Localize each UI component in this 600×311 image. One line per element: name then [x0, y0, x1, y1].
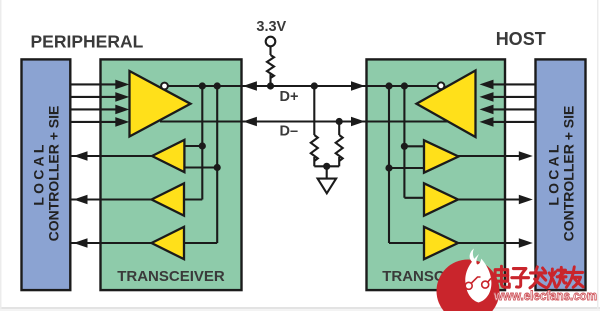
svg-text:CONTROLLER + SIE: CONTROLLER + SIE — [45, 106, 61, 242]
svg-text:CONTROLLER + SIE: CONTROLLER + SIE — [560, 106, 576, 242]
svg-text:TRANSCEIVER: TRANSCEIVER — [117, 268, 225, 285]
svg-text:3.3V: 3.3V — [256, 19, 286, 35]
svg-text:LOCAL: LOCAL — [545, 141, 561, 205]
svg-text:HOST: HOST — [496, 29, 546, 49]
svg-text:D–: D– — [280, 123, 299, 139]
svg-text:www.elecfans.com: www.elecfans.com — [493, 288, 597, 303]
svg-text:LOCAL: LOCAL — [30, 141, 46, 205]
svg-text:D+: D+ — [280, 89, 299, 105]
svg-text:PERIPHERAL: PERIPHERAL — [31, 32, 144, 52]
